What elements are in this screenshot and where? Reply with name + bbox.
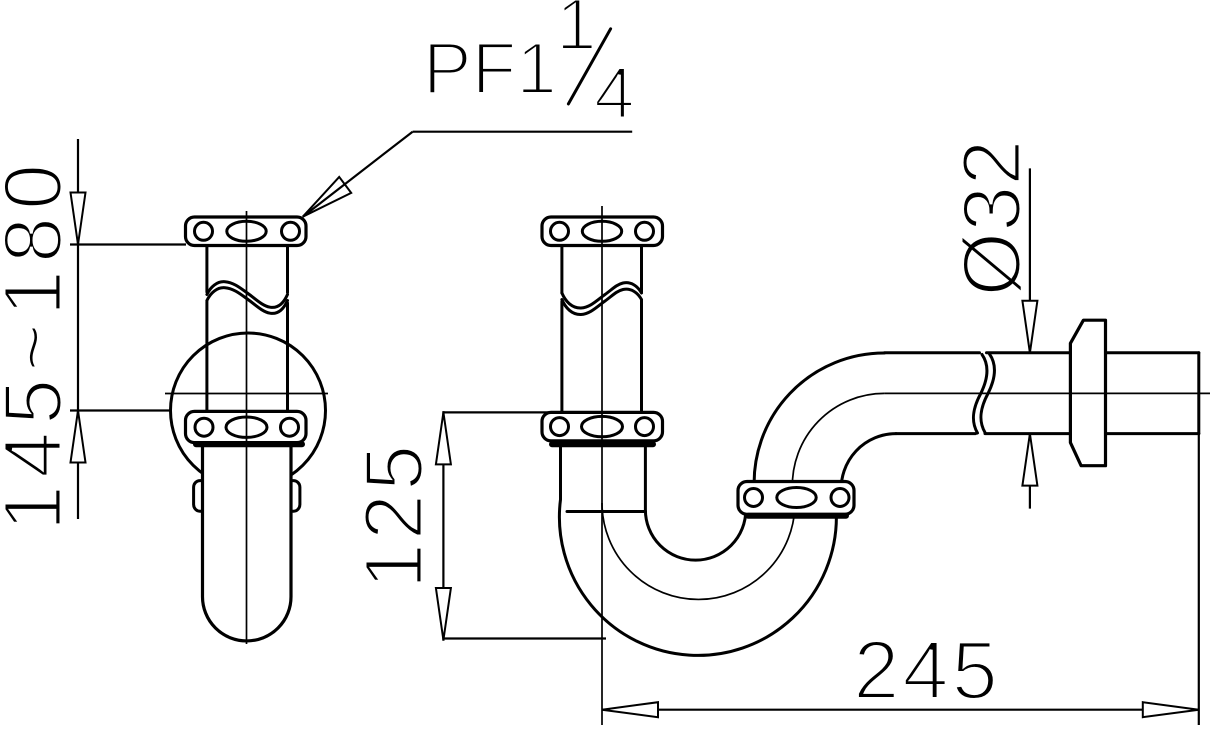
svg-text:1: 1 xyxy=(556,0,597,65)
bottom arrowhead (points up) xyxy=(71,411,86,463)
left view vertical centerline xyxy=(246,211,248,644)
leader diagonal segment xyxy=(303,132,413,217)
dimension line xyxy=(442,411,444,641)
horizontal outlet pipe top wall (left of break) xyxy=(884,351,979,354)
horizontal outlet pipe top wall (right of break) xyxy=(987,351,1071,354)
svg-text:Ø32: Ø32 xyxy=(945,140,1038,297)
pipe break wavy line (lower curve) xyxy=(207,288,288,314)
lower nut right hole xyxy=(636,418,654,436)
right arrowhead (points right) xyxy=(1143,702,1199,717)
nut center ellipse xyxy=(227,221,266,241)
top arrowhead (points up) xyxy=(436,412,451,464)
pipe break wavy line (right curve) xyxy=(981,354,995,433)
fraction slash xyxy=(568,29,610,104)
top extension line xyxy=(443,411,560,413)
lower nut thick bottom edge xyxy=(196,441,302,447)
upper arrowhead (points down) xyxy=(1022,301,1037,353)
dimension line lower segment xyxy=(1029,434,1031,509)
bottom extension line xyxy=(443,637,606,639)
lower nut left hole xyxy=(195,418,213,436)
middle view vertical centerline (also 245 extension) xyxy=(601,206,603,725)
ball joint sphere xyxy=(171,333,326,488)
left retaining ear xyxy=(194,481,203,512)
svg-text:145~180: 145~180 xyxy=(0,157,79,531)
top arrowhead (points down) xyxy=(71,193,86,245)
tailpiece outer tube with rounded bottom (covers ball lower part) xyxy=(203,443,292,641)
inlet pipe right wall (lower) xyxy=(640,301,643,413)
nut center ellipse xyxy=(582,221,621,241)
top coupling nut (left view) xyxy=(186,217,307,246)
outlet nut right hole xyxy=(831,489,849,507)
dimension line xyxy=(602,709,1199,711)
inlet pipe left wall (upper) xyxy=(560,246,563,294)
outlet coupling nut (at trap exit) xyxy=(738,482,854,515)
outlet elbow inner wall arc xyxy=(841,434,896,492)
outlet nut thick bottom edge xyxy=(748,513,846,519)
lower coupling nut (middle view, on trap inlet) xyxy=(542,412,663,441)
horizontal outlet pipe bottom wall (right of break) xyxy=(985,432,1070,435)
horizontal outlet pipe bottom wall (left of break) xyxy=(896,432,976,435)
pipe break wavy line (left curve) xyxy=(973,355,987,434)
outlet elbow outer wall arc xyxy=(754,353,884,490)
inlet pipe left wall (lower segment below break) xyxy=(205,302,208,412)
dimension line xyxy=(77,139,79,519)
inlet pipe left wall (upper segment above break) xyxy=(205,246,208,293)
lower nut thick bottom edge xyxy=(552,441,653,447)
top extension line xyxy=(70,243,186,245)
lower nut center ellipse xyxy=(582,416,623,436)
svg-text:4: 4 xyxy=(594,53,635,134)
leader horizontal segment xyxy=(413,131,633,133)
water seal line xyxy=(567,510,646,513)
outlet elbow centerline arc xyxy=(792,393,884,488)
outlet nut left hole xyxy=(745,489,763,507)
nut right hole xyxy=(282,222,300,240)
inlet pipe right wall (upper) xyxy=(640,246,643,293)
left arrowhead (points left) xyxy=(602,702,658,717)
wall escutcheon flange xyxy=(1070,320,1105,466)
inlet pipe left wall (lower) xyxy=(560,302,563,413)
dimension line upper segment xyxy=(1029,168,1031,352)
inlet pipe right wall (lower segment below break) xyxy=(286,303,289,411)
lower coupling nut on ball (left view) xyxy=(186,411,307,442)
outlet pipe end cap xyxy=(1197,353,1200,434)
lower nut center ellipse xyxy=(226,417,267,437)
outlet nut center ellipse xyxy=(777,488,816,508)
pipe break wavy line (lower) xyxy=(562,289,642,314)
ball horizontal centerline xyxy=(165,393,328,395)
inlet pipe right wall (upper segment above break) xyxy=(286,246,289,293)
outlet pipe top wall (right of flange) xyxy=(1106,351,1199,354)
lower arrowhead (points up) xyxy=(1022,434,1037,486)
trap U-bend centerline arc xyxy=(602,503,795,599)
leader open arrowhead xyxy=(303,177,351,217)
trap U-bend inner wall arc xyxy=(645,447,745,560)
svg-text:125: 125 xyxy=(347,442,440,589)
svg-text:245: 245 xyxy=(853,623,1000,716)
outlet pipe bottom wall (right of flange) xyxy=(1106,432,1199,435)
svg-text:PF1: PF1 xyxy=(423,29,557,110)
trap U-bend outer wall arc xyxy=(559,447,836,655)
bottom arrowhead (points down) xyxy=(436,588,451,640)
right retaining ear xyxy=(291,481,300,512)
pipe break wavy line (upper) xyxy=(562,283,642,308)
nut right hole xyxy=(636,222,654,240)
nut left hole xyxy=(551,222,569,240)
bottom extension line xyxy=(70,409,172,411)
lower nut right hole xyxy=(281,418,299,436)
pipe break wavy line (upper curve) xyxy=(207,282,288,308)
lower nut left hole xyxy=(551,418,569,436)
top coupling nut (middle view) xyxy=(542,217,663,246)
right extension line (pipe end) xyxy=(1198,434,1200,725)
nut left hole xyxy=(195,222,213,240)
outlet pipe horizontal centerline xyxy=(884,392,1210,394)
